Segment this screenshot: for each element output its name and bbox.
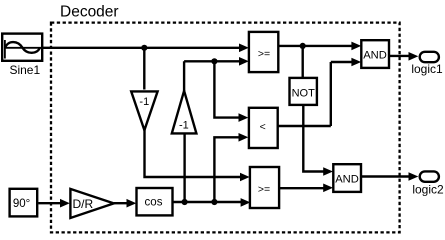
svg-text:AND: AND [363, 50, 387, 62]
svg-text:logic2: logic2 [412, 183, 444, 197]
wire: gain -1 (up) output up and right to comparator >=1 bottom input [184, 57, 249, 91]
svg-text:>=: >= [258, 184, 270, 196]
wire: junction down to comparator < top input [214, 61, 248, 122]
svg-text:<: < [260, 121, 266, 133]
wire: Sine1 output to comparator >=1 top input [42, 44, 249, 53]
label Sine1 [9, 63, 40, 77]
junction node on -cos wire [211, 58, 217, 64]
gain block -1 (pointing down) [131, 91, 157, 130]
comparator block < [249, 108, 278, 148]
svg-text:>=: >= [258, 48, 270, 60]
gain block D/R [70, 189, 113, 218]
wire: NOT output down and right to AND2 top input [303, 105, 333, 176]
svg-text:AND: AND [335, 174, 359, 186]
constant block 90deg [10, 189, 38, 217]
svg-text:Sine1: Sine1 [9, 63, 40, 77]
svg-text:-1: -1 [139, 96, 149, 108]
wire: >=2 output to AND2 bottom input [279, 184, 333, 193]
output port logic1 [420, 52, 439, 62]
logic block AND1 [361, 40, 389, 68]
output port logic2 [420, 171, 439, 181]
wire: >=1 output to AND1 top input [278, 42, 361, 51]
label logic1 [411, 62, 443, 76]
junction node on cos wire (to up gain) [182, 199, 188, 205]
source block Sine1 [2, 34, 42, 61]
junction node on cos wire (to < bottom input) [211, 199, 217, 205]
wire: AND1 output to port logic1 [389, 52, 418, 61]
comparator block >=1 [249, 32, 278, 72]
wire: junction up to gain -1 (up) input [183, 134, 185, 202]
wire: < output right, up, to AND1 bottom input [278, 58, 362, 126]
wire: 90deg to gain D/R [38, 199, 70, 208]
svg-text:D/R: D/R [73, 197, 94, 211]
wire: junction up and right to comparator < bottom input [214, 133, 248, 202]
logic block AND2 [333, 164, 361, 192]
wire: gain -1 (down) output to comparator >=2 top input [145, 130, 250, 182]
svg-text:-1: -1 [179, 120, 189, 132]
svg-text:Decoder: Decoder [60, 4, 119, 21]
wire: gain D/R to cos block [114, 199, 137, 208]
dashed subsystem boundary [51, 23, 400, 233]
svg-text:NOT: NOT [292, 87, 316, 99]
wire: cos output to comparator >=2 bottom input [173, 198, 251, 207]
junction node on >=1 output wire [300, 43, 306, 49]
subsystem label Decoder [60, 4, 119, 21]
svg-text:cos: cos [145, 197, 163, 209]
function block cos [137, 188, 173, 215]
wire: junction down to gain -1 (down) [143, 48, 145, 90]
wire: AND2 output to port logic2 [361, 172, 418, 181]
comparator block >=2 [250, 167, 279, 208]
label logic2 [412, 183, 444, 197]
svg-text:logic1: logic1 [411, 62, 443, 76]
logic block NOT [290, 78, 317, 105]
gain block -1 (pointing up) [172, 91, 197, 134]
junction node on main wire [141, 45, 147, 51]
svg-text:90°: 90° [13, 198, 30, 210]
wire: junction down to NOT input [302, 46, 304, 78]
